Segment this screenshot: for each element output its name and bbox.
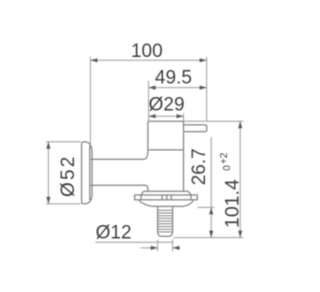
ext line shank left	[157, 240, 159, 252]
arrow Ø52 top	[46, 142, 50, 149]
nut right chamfer	[188, 191, 191, 195]
svg-text:Ø29: Ø29	[149, 94, 185, 115]
arrow 26.7 top	[209, 207, 213, 214]
arrow 100 right	[200, 58, 207, 62]
ext line outlet tip bottom	[173, 237, 243, 239]
nut band marks	[141, 195, 191, 200]
arrowheads	[46, 58, 242, 250]
ext line body right up	[183, 113, 185, 121]
arrow 101.4 top	[238, 121, 242, 128]
ext line body left (49.5/Ø29)	[148, 81, 150, 121]
arrow Ø29 right	[177, 114, 184, 118]
arrow 26.7 bottom	[209, 231, 213, 238]
dim line 26.7	[210, 137, 212, 238]
nut top face	[144, 190, 189, 192]
shank shoulder line	[158, 231, 173, 233]
nut bowl	[139, 200, 193, 207]
ext line handle tip (100/49.5 right)	[206, 57, 208, 122]
ext line Ø52 bottom	[46, 203, 81, 205]
arrow Ø52 bottom	[46, 197, 50, 204]
arrow 100 left	[90, 58, 97, 62]
arrow 49.5 right	[200, 86, 207, 90]
part outline group	[82, 121, 207, 236]
ext line top right (to 101.4)	[184, 120, 244, 122]
threaded shank outline	[158, 206, 173, 236]
body right edge	[183, 121, 185, 191]
arrow Ø12 right	[173, 246, 180, 250]
svg-text:100: 100	[131, 41, 163, 62]
dim line Ø52	[47, 142, 49, 204]
dim line Ø12 right	[173, 247, 180, 249]
dimension texts	[58, 41, 243, 243]
wall flange (Ø52)	[82, 142, 92, 204]
svg-text:Ø12: Ø12	[96, 223, 132, 244]
ext line shank right	[172, 240, 174, 252]
nut serration band	[135, 195, 198, 200]
ext line flange right (100 left)	[89, 57, 91, 148]
dim line Ø12 left	[141, 247, 158, 249]
dim line 100	[90, 59, 206, 61]
arrow Ø29 left	[149, 114, 156, 118]
pipe top edge + fillet into body left edge	[90, 121, 148, 159]
dim line Ø29	[149, 115, 184, 117]
nut left chamfer	[141, 191, 144, 195]
svg-text:26.7: 26.7	[189, 148, 210, 185]
dim line 49.5	[149, 87, 207, 89]
body top edge	[148, 120, 184, 122]
svg-text:49.5: 49.5	[155, 68, 192, 89]
handle lever	[184, 125, 207, 132]
body seam line	[148, 149, 184, 151]
dim line 101.4	[239, 121, 241, 237]
pipe bottom edge + fillet into lower body left edge	[90, 185, 148, 191]
ext line nut bottom	[197, 206, 214, 208]
dimension line group	[46, 57, 244, 252]
arrow 101.4 bottom	[238, 231, 242, 238]
thread lines	[158, 210, 173, 229]
flange cap seam	[89, 145, 91, 200]
arrow Ø12 left	[151, 246, 158, 250]
ext line Ø52 top	[46, 141, 81, 143]
leader underline Ø12	[95, 241, 173, 243]
svg-text:Ø52: Ø52	[58, 154, 79, 197]
arrow 49.5 left	[149, 86, 156, 90]
